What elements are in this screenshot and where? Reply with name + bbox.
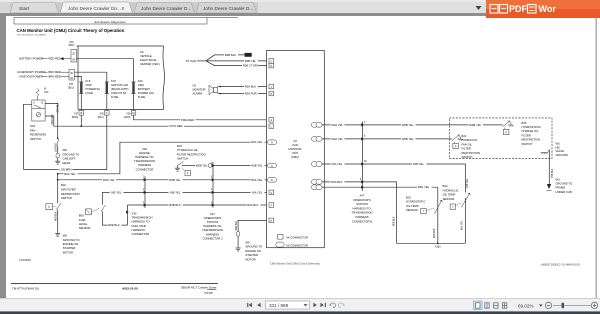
svg-text:R0A PUR: R0A PUR — [245, 92, 257, 96]
connector X47-2 OPERATOR'S STATION (column) — [211, 162, 215, 208]
svg-text:X4 CONNECTOR: X4 CONNECTOR — [286, 236, 308, 240]
CMU pin L — [269, 124, 274, 129]
wire R0B YEL to CMU pin C — [206, 60, 269, 62]
wire: battery feed to fuse F20 — [77, 59, 134, 82]
svg-text:5A: 5A — [72, 58, 75, 61]
svg-text:Y6E YEL: Y6E YEL — [110, 190, 122, 194]
connector X37 (BRN) pin B — [79, 111, 84, 116]
svg-text:CONNECTOR 2: CONNECTOR 2 — [203, 236, 223, 240]
svg-text:FUSE: FUSE — [138, 95, 146, 99]
wire R0B BLK with CAN terminator — [206, 55, 244, 61]
op-unit A3 CMU box — [267, 51, 325, 248]
svg-text:CONNECTOR: CONNECTOR — [136, 167, 154, 171]
svg-text:HYDRAULIC: HYDRAULIC — [462, 138, 478, 142]
svg-text:R6D BLK: R6D BLK — [56, 211, 58, 221]
svg-text:MOTOR: MOTOR — [245, 257, 255, 261]
wire R0D YEL to B15 — [322, 186, 438, 188]
connector X33 half-arrow pin — [126, 211, 129, 214]
svg-text:W6C YEL: W6C YEL — [103, 178, 115, 182]
wire W0A YEL / W0B YEL to B25 — [322, 124, 503, 126]
svg-text:CIRCUIT 5A: CIRCUIT 5A — [111, 91, 126, 95]
svg-text:MOTOR: MOTOR — [63, 250, 73, 254]
svg-text:STARTER: STARTER — [63, 246, 76, 250]
svg-text:SWITCH: SWITCH — [30, 137, 41, 141]
first page btn — [249, 303, 252, 307]
svg-text:69.02%: 69.02% — [518, 303, 534, 308]
svg-text:HYDRAULIC: HYDRAULIC — [443, 188, 459, 192]
svg-text:R6A YEL: R6A YEL — [251, 178, 263, 182]
svg-text:W0B YEL: W0B YEL — [402, 137, 414, 141]
svg-text:ACCESSORY POWER: ACCESSORY POWER — [17, 70, 45, 74]
switch S23 FAN REVERSING SWITCH body — [32, 100, 45, 121]
svg-text:FILTER RESTRICTION: FILTER RESTRICTION — [177, 152, 206, 156]
svg-text:IGNITION POWER: IGNITION POWER — [20, 74, 43, 78]
prev view / next view icons — [331, 303, 336, 307]
wire: S23 left pin to LGN BRN feed — [23, 104, 31, 169]
CAN terminator (black block) — [245, 53, 252, 57]
svg-text:FILTER: FILTER — [522, 133, 531, 137]
svg-text:FILTER: FILTER — [462, 147, 471, 151]
svg-text:MONITOR: MONITOR — [289, 147, 302, 151]
svg-text:R6E BLK: R6E BLK — [108, 223, 119, 227]
wire W6B YEL / N6B YEL : B23 to CMU oval pin — [195, 165, 268, 167]
ground W3 HIC VALVE GROUND (chassis) — [541, 150, 550, 155]
svg-text:F16: F16 — [86, 79, 91, 83]
svg-text:VALVE: VALVE — [556, 149, 565, 153]
svg-text:BLK YEL: BLK YEL — [462, 220, 464, 230]
svg-text:FUSE: FUSE — [111, 95, 119, 99]
svg-text:STARTER: STARTER — [245, 253, 258, 257]
CMU pin P — [269, 218, 274, 223]
svg-text:TRANSMISSION: TRANSMISSION — [132, 216, 153, 220]
tab-list dropdown arrow — [476, 6, 482, 10]
svg-text:CMU Monitor Unit (CMU) Circuit: CMU Monitor Unit (CMU) Circuit Schematic — [270, 261, 321, 265]
svg-text:FRAME: FRAME — [556, 186, 566, 190]
svg-text:GROUND: GROUND — [556, 153, 568, 157]
svg-text:J: J — [271, 87, 272, 89]
svg-text:OIL TEMP: OIL TEMP — [406, 204, 419, 208]
svg-text:K1B2: K1B2 — [435, 247, 441, 249]
svg-text:(BACKLIGHT): (BACKLIGHT) — [111, 87, 129, 91]
view mode icons — [474, 301, 507, 310]
svg-text:W0A YEL: W0A YEL — [331, 137, 343, 141]
svg-text:R6B BLK: R6B BLK — [169, 203, 180, 207]
svg-text:GROUND TO: GROUND TO — [556, 182, 573, 186]
svg-text:LEVEL: LEVEL — [79, 222, 88, 226]
svg-text:R0A BLK: R0A BLK — [247, 203, 258, 207]
svg-text:X47: X47 — [210, 212, 215, 216]
wire R0B LT GRN to CMU pin D — [206, 61, 269, 66]
svg-text:HARNESS: HARNESS — [355, 215, 368, 219]
next page btn — [313, 303, 316, 307]
svg-text:x: x — [122, 6, 125, 12]
svg-text:CAN: CAN — [292, 143, 298, 147]
connector X29 ENGINE HARNESS-TO-TRANSMISSION — [143, 177, 147, 209]
svg-text:FUEL TANK: FUEL TANK — [132, 224, 147, 228]
svg-text:(BRN): (BRN) — [72, 117, 79, 119]
svg-text:TX04632: TX04632 — [19, 258, 32, 262]
svg-text:ENGINE ON: ENGINE ON — [245, 249, 260, 253]
svg-text:(BAT): (BAT) — [69, 44, 75, 47]
svg-text:BRN RED: BRN RED — [49, 70, 61, 74]
wire R6B BLK / R0A BLK : to CMU pin F — [127, 204, 269, 206]
svg-text:B15: B15 — [406, 196, 411, 200]
svg-text:X29: X29 — [142, 147, 147, 151]
switch S23 actuator (key lever) — [36, 89, 39, 100]
svg-text:X37: X37 — [74, 113, 79, 115]
tab: active John Deere Crawler Do... — [60, 2, 133, 13]
wire R0A BLK down to ground bus — [322, 182, 397, 243]
svg-text:X0A YEL: X0A YEL — [331, 162, 342, 166]
svg-text:HYDROSTATIC: HYDROSTATIC — [406, 200, 425, 204]
svg-text:RESTRICTION: RESTRICTION — [522, 138, 541, 142]
wire: ignition feed to fuse F16 — [75, 76, 82, 82]
ground W8 — [55, 161, 60, 164]
svg-text:OFF: OFF — [44, 92, 49, 94]
legend X5 connector — [276, 242, 284, 247]
wire Y0B BLK down to frame ground — [548, 150, 550, 185]
CMU oval pin pair (right, line 3) — [312, 162, 318, 167]
svg-text:CMU: CMU — [86, 83, 92, 87]
svg-text:CMU: CMU — [138, 83, 144, 87]
page header table: Sub-System Diagnostics — [14, 18, 238, 24]
fuse F16 CMU POWER 5A — [79, 82, 83, 111]
svg-text:Y6B YEL: Y6B YEL — [169, 190, 181, 194]
svg-text:REVERSING: REVERSING — [30, 133, 46, 137]
svg-text:B25: B25 — [522, 121, 527, 125]
wire R0A PUR to CMU pin H — [220, 93, 269, 95]
svg-text:X0B YEL: X0B YEL — [413, 162, 425, 166]
left gray margin of document area — [0, 16, 6, 298]
svg-text:R0A BLK: R0A BLK — [331, 180, 342, 184]
svg-text:W6: W6 — [63, 234, 68, 238]
svg-text:OPERATOR'S: OPERATOR'S — [204, 216, 222, 220]
svg-text:RED RED: RED RED — [49, 57, 61, 61]
svg-text:OPERATOR'S: OPERATOR'S — [353, 198, 371, 202]
wire R0A BLK to CMU pin J — [220, 86, 269, 88]
svg-text:W0B YEL: W0B YEL — [402, 123, 414, 127]
svg-text:(BLU): (BLU) — [68, 87, 74, 89]
svg-text:FUEL: FUEL — [79, 218, 87, 222]
CMU oval pin D2 — [268, 178, 277, 183]
svg-text:B10: B10 — [443, 184, 448, 188]
CMU pin F — [269, 203, 274, 208]
switch B22 AIR FILTER RESTRICTION SWITCH — [46, 173, 61, 233]
svg-text:CONNECTOR: CONNECTOR — [132, 232, 150, 236]
connector X47-B (column) — [360, 122, 367, 192]
svg-text:CAN Monitor Unit (CMU) Circuit: CAN Monitor Unit (CMU) Circuit Theory of… — [17, 28, 125, 33]
wire W6C YEL / R6B YEL / R6A YEL : to CMU oval pin — [58, 179, 267, 181]
switch B23 HYDRAULIC OIL FILTER RESTRICTION — [175, 162, 195, 172]
svg-text:850UR MCT Crawler Dozer: 850UR MCT Crawler Dozer — [181, 286, 216, 290]
CMU oval pin N — [268, 140, 277, 145]
CMU pin S — [269, 190, 274, 195]
CMU oval pin E — [268, 163, 277, 168]
svg-text:LGN BRN: LGN BRN — [59, 168, 71, 172]
CMU oval pin pair (right, line 2) — [312, 137, 318, 142]
svg-text:ORG BLK: ORG BLK — [52, 114, 54, 125]
tab: Start — [10, 2, 59, 13]
svg-text:RESTRICTION: RESTRICTION — [61, 192, 80, 196]
orange plugin button 福昕PDF转Word — [486, 0, 600, 18]
svg-text:MONITOR: MONITOR — [193, 88, 206, 92]
prev page btn — [257, 303, 260, 307]
svg-text:Start: Start — [19, 6, 30, 12]
svg-text:GROUND TO: GROUND TO — [245, 245, 262, 249]
svg-text:POWER 10A: POWER 10A — [138, 91, 154, 95]
svg-text:B23: B23 — [177, 144, 182, 148]
svg-text:P06A RED: P06A RED — [181, 118, 194, 122]
svg-text:SWITCH LCD: SWITCH LCD — [111, 83, 128, 87]
wire R6A YEL / N0A YEL : air filter switch to CMU pin N — [58, 142, 267, 174]
svg-text:OIL TEMP: OIL TEMP — [443, 193, 456, 197]
CMU pin C — [269, 59, 274, 64]
alarm H2 MONITOR ALARM (speaker) — [209, 85, 221, 94]
sensor B15 HYDROSTATIC OIL TEMP — [421, 187, 442, 243]
svg-text:SWITCH: SWITCH — [177, 157, 188, 161]
svg-text:(BLU): (BLU) — [98, 117, 104, 119]
ground W3 GROUND TO FRAME (arrow) — [547, 184, 551, 189]
svg-text:R0E BLK: R0E BLK — [236, 220, 238, 230]
svg-text:STATION: STATION — [356, 202, 368, 206]
ground bus / node K1B2 — [397, 242, 466, 244]
CMU oval pin pair (right, line 5) — [312, 185, 318, 190]
svg-text:SWITCH: SWITCH — [61, 196, 72, 200]
svg-text:X5 CONNECTOR: X5 CONNECTOR — [286, 243, 308, 247]
svg-text:B09: B09 — [79, 214, 84, 218]
svg-text:SWITCH: SWITCH — [522, 142, 533, 146]
svg-text:S23: S23 — [30, 124, 35, 128]
wire P06A RED : X36-10 to CMU pin A — [134, 115, 270, 120]
svg-text:VEHICLE: VEHICLE — [140, 54, 152, 58]
switch B25 HYDROSTATIC CHARGE OIL FILTER RESTRICTION — [503, 121, 514, 135]
tab 4 — [196, 2, 257, 13]
svg-text:BATTERY: BATTERY — [138, 87, 151, 91]
svg-text:K30: K30 — [69, 84, 74, 86]
svg-text:John Deere Crawler D...: John Deere Crawler D... — [141, 6, 191, 11]
svg-text:X36: X36 — [126, 113, 131, 115]
svg-text:P07A RED: P07A RED — [170, 124, 183, 128]
svg-text:SENSOR: SENSOR — [79, 226, 91, 230]
svg-text:W8: W8 — [63, 148, 68, 152]
CMU pin A — [269, 118, 274, 123]
svg-text:3C: 3C — [70, 73, 73, 75]
svg-text:HYDRAULIC OIL: HYDRAULIC OIL — [177, 148, 199, 152]
svg-text:F20: F20 — [138, 79, 143, 83]
legend X4 connector — [278, 235, 284, 240]
svg-text:REAR: REAR — [63, 161, 71, 165]
svg-text:R0D YEL: R0D YEL — [418, 185, 430, 189]
wire GRY BLK : S23 upper right pin down to ground W8 — [45, 104, 58, 139]
svg-text:3C: 3C — [72, 54, 75, 56]
svg-text:STATION: STATION — [207, 220, 219, 224]
ground W6 (air filter switch) — [55, 233, 60, 236]
svg-text:X35: X35 — [100, 113, 105, 115]
svg-text:9015-15-20: 9015-15-20 — [122, 286, 138, 290]
CMU oval pin pair (right, line 4) — [312, 180, 318, 185]
svg-text:Y6A YEL: Y6A YEL — [251, 190, 262, 194]
svg-text:W6B YEL: W6B YEL — [196, 164, 208, 168]
connector X35 (BLU) pin F — [105, 111, 110, 116]
svg-text:K30: K30 — [69, 42, 74, 44]
connector X30 (BLU) pin box — [69, 70, 75, 81]
svg-text:A6: A6 — [140, 50, 144, 54]
svg-text:HARNESS: HARNESS — [138, 163, 151, 167]
wire Y6E YEL / Y6B YEL / Y6A YEL : fuel sender to CMU pin S — [102, 191, 269, 193]
svg-text:John Deere Crawler D...: John Deere Crawler D... — [203, 6, 253, 11]
svg-text:HARNESS: HARNESS — [206, 232, 219, 236]
connector X30 (BAT) pin box pins 3C/5A — [71, 50, 77, 63]
svg-text:LN66197,00000C2 -19-14MAY16-5/: LN66197,00000C2 -19-14MAY16-5/3 — [541, 264, 581, 267]
wire to CMU pin P with ground W6 — [238, 220, 269, 231]
svg-text:TX14740,0000CB1 -19-20MAY15: TX14740,0000CB1 -19-20MAY15 — [17, 34, 48, 37]
fuse F15 SWITCH LCD 5A — [105, 82, 109, 111]
svg-text:UNDER CAB: UNDER CAB — [556, 190, 572, 194]
svg-text:H2: H2 — [193, 84, 197, 88]
svg-text:John Deere Crawler Do...: John Deere Crawler Do... — [68, 6, 121, 11]
svg-text:Wor: Wor — [539, 4, 557, 14]
svg-text:W3: W3 — [556, 141, 561, 145]
svg-text:FAN OIL: FAN OIL — [462, 142, 473, 146]
svg-text:TRANSMISSION: TRANSMISSION — [202, 228, 223, 232]
page number box — [266, 301, 310, 309]
CMU oval pin pair (right, line 1) — [312, 123, 318, 128]
svg-text:CENTER (VEC): CENTER (VEC) — [140, 62, 160, 66]
sensor B10 HYDRAULIC OIL TEMP — [450, 193, 470, 243]
right pane divider line — [595, 18, 597, 298]
sensor B09 FUEL LEVEL SENSOR — [86, 192, 128, 225]
svg-text:W3: W3 — [556, 177, 561, 181]
svg-text:HARNESS-TO-: HARNESS-TO- — [353, 206, 372, 210]
svg-text:ENGINE ON: ENGINE ON — [63, 242, 78, 246]
svg-text:CONNECTOR B: CONNECTOR B — [352, 219, 372, 223]
last page btn — [320, 303, 323, 307]
svg-text:SENSOR: SENSOR — [406, 208, 418, 212]
svg-text:HARNESS-TO-: HARNESS-TO- — [135, 155, 154, 159]
svg-text:R6A YEL: R6A YEL — [64, 172, 76, 176]
svg-text:ENGINE: ENGINE — [139, 151, 150, 155]
svg-text:POWER 5A: POWER 5A — [86, 87, 101, 91]
svg-text:HYDROSTATIC: HYDROSTATIC — [522, 125, 541, 129]
svg-text:HARNESS-TO-: HARNESS-TO- — [203, 224, 222, 228]
svg-text:CHARGE OIL: CHARGE OIL — [522, 129, 539, 133]
svg-text:ELECTRICAL: ELECTRICAL — [140, 58, 157, 62]
tab 3 — [134, 2, 195, 13]
svg-text:SENSOR: SENSOR — [443, 197, 455, 201]
svg-text:N6B YEL: N6B YEL — [251, 164, 263, 168]
svg-text:RESTRICTION: RESTRICTION — [462, 151, 481, 155]
svg-text:HIC: HIC — [556, 145, 561, 149]
svg-text:X47: X47 — [360, 194, 365, 198]
svg-text:HARNESS-TO-: HARNESS-TO- — [132, 220, 151, 224]
svg-text:R0B BLK: R0B BLK — [225, 53, 236, 57]
svg-text:GRY BLK: GRY BLK — [58, 102, 60, 112]
CMU pin J — [269, 84, 274, 89]
wire: S23 lower right pin to ignition feed P07A — [45, 116, 54, 126]
svg-text:BRN RED: BRN RED — [49, 74, 61, 78]
svg-text:BATTERY POWER: BATTERY POWER — [20, 57, 44, 61]
svg-text:R0B YEL: R0B YEL — [245, 59, 257, 63]
svg-text:N0A YEL: N0A YEL — [251, 140, 263, 144]
wire: accessory feed to fuse F15 — [75, 72, 107, 82]
svg-text:X0B YEL: X0B YEL — [467, 178, 469, 188]
svg-text:L0A BLK: L0A BLK — [55, 143, 58, 152]
svg-text:331 / 988: 331 / 988 — [269, 303, 289, 308]
gray band under tabs — [0, 13, 600, 16]
svg-text:R6B YEL: R6B YEL — [169, 178, 181, 182]
ground W6 (CMU pin P) — [236, 248, 241, 251]
svg-text:W0A YEL: W0A YEL — [331, 123, 343, 127]
svg-text:R0D BLK: R0D BLK — [434, 228, 436, 238]
svg-text:X33: X33 — [132, 212, 137, 216]
inline connector on ground wire — [57, 137, 59, 139]
svg-text:FAN: FAN — [30, 128, 35, 132]
CMU pin D — [269, 63, 274, 68]
fuse F20 CMU BATTERY POWER 10A — [132, 82, 136, 111]
svg-text:B22: B22 — [61, 183, 66, 187]
svg-text:AIR FILTER: AIR FILTER — [61, 187, 76, 191]
A6 VEC box outline with torn right edge — [77, 45, 164, 47]
wire LGN BRN : X35-F fuse output down and left to S23 — [23, 115, 106, 169]
svg-text:TRANSMISSION: TRANSMISSION — [134, 159, 155, 163]
svg-text:W6: W6 — [245, 241, 250, 245]
svg-text:PDF: PDF — [509, 4, 528, 14]
svg-text:FUSE: FUSE — [86, 91, 94, 95]
svg-text:B24: B24 — [462, 134, 467, 138]
svg-text:F15: F15 — [111, 79, 116, 83]
svg-text:TM-9779 (03MAY19): TM-9779 (03MAY19) — [12, 286, 39, 290]
CMU pin H — [269, 91, 274, 96]
svg-text:PN=58: PN=58 — [204, 291, 213, 295]
svg-text:TO CAN: TO CAN — [186, 59, 196, 63]
svg-text:IN: IN — [44, 89, 47, 91]
svg-text:Y0B BLK: Y0B BLK — [552, 168, 554, 178]
connector X36 (GRN) pin 10 — [131, 111, 136, 116]
wire P07A RED : X37-B to CMU pin L, and left to key switch — [81, 115, 269, 126]
svg-text:GROUND TO: GROUND TO — [63, 238, 80, 242]
svg-text:CAB LEFT: CAB LEFT — [63, 157, 76, 161]
svg-text:SWITCH: SWITCH — [462, 155, 473, 159]
svg-text:R0B LT GRN: R0B LT GRN — [243, 64, 259, 68]
wire X0A YEL / X0B YEL to B10 — [322, 164, 465, 193]
svg-text:GROUND TO: GROUND TO — [63, 152, 80, 156]
svg-text:R0A BLK: R0A BLK — [245, 85, 256, 89]
svg-text:UNIT: UNIT — [292, 151, 299, 155]
svg-text:Sub-System Diagnostics: Sub-System Diagnostics — [94, 20, 126, 24]
svg-text:5A: 5A — [70, 77, 73, 80]
switch B24 HYDRAULIC FAN OIL FILTER RESTRICTION — [452, 135, 463, 149]
svg-text:HARNESS: HARNESS — [132, 228, 145, 232]
svg-text:TRANSMISSION: TRANSMISSION — [352, 211, 373, 215]
svg-text:ALARM: ALARM — [193, 92, 203, 96]
svg-text:(GRN): (GRN) — [124, 117, 131, 119]
svg-text:W0B YEL: W0B YEL — [469, 123, 481, 127]
svg-text:R0E BLK: R0E BLK — [394, 216, 396, 226]
svg-text:(CMU): (CMU) — [291, 155, 299, 159]
svg-text:A3: A3 — [293, 139, 297, 143]
wire W0A YEL / W0B YEL to B24 — [322, 138, 452, 140]
